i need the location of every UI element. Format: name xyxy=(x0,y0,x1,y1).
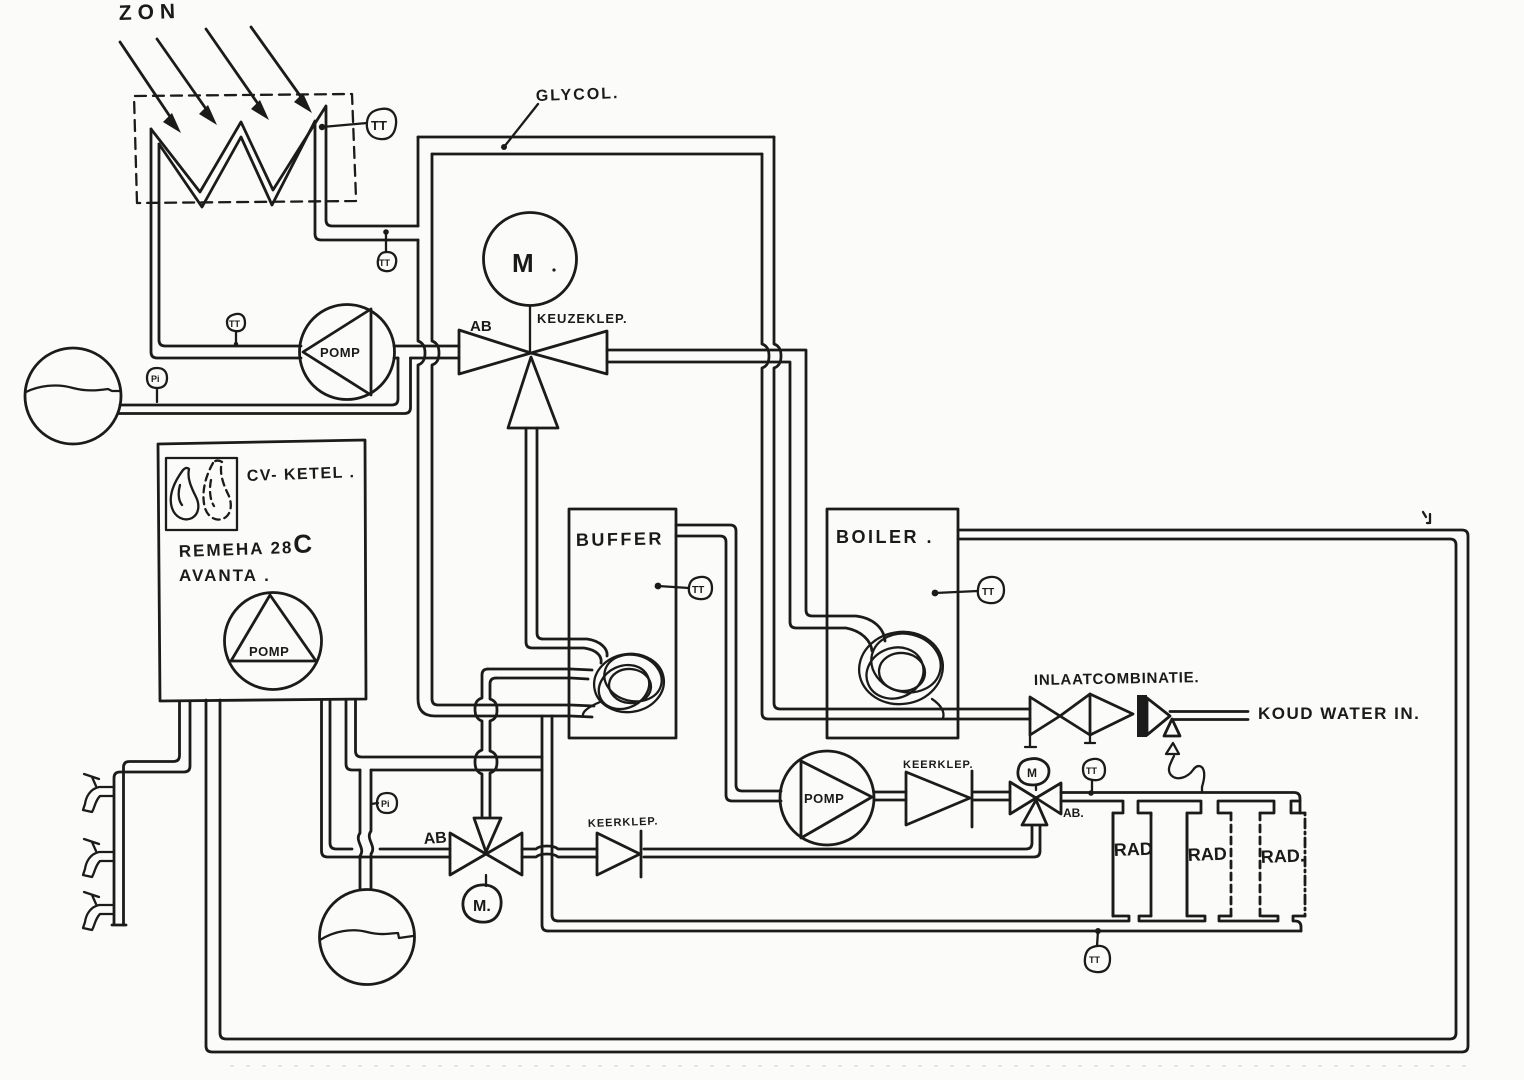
sun ray arrow 4 xyxy=(251,27,312,113)
sensor TT6 on boiler xyxy=(932,577,1004,603)
wire: cv pipe p3 down to mixing valve line xyxy=(322,701,451,857)
wire: supply right end xyxy=(1291,801,1305,813)
wire: mixing valve line to radiator valve bottom port xyxy=(522,827,1040,857)
label KEUZEKLEP xyxy=(537,311,628,326)
wire: pump 2 outlet xyxy=(874,792,906,800)
svg-text:M: M xyxy=(1027,766,1037,780)
stray mark top right xyxy=(1423,512,1430,523)
svg-text:KEUZEKLEP.: KEUZEKLEP. xyxy=(537,311,628,326)
heat exchanger coil in buffer xyxy=(583,649,668,717)
wire: return bridge 2 xyxy=(1219,916,1278,921)
svg-text:TT: TT xyxy=(1086,766,1097,776)
pump POMP2 (heating) xyxy=(780,751,874,845)
gauge Pi1 xyxy=(147,368,167,402)
svg-text:RAD.: RAD. xyxy=(1260,845,1305,867)
pump POMP1 (solar) xyxy=(300,305,395,400)
svg-text:TT: TT xyxy=(229,319,240,329)
svg-text:POMP: POMP xyxy=(804,791,844,806)
svg-text:BOILER .: BOILER . xyxy=(836,527,934,547)
wire: glycol loop right side down to boiler coil return xyxy=(762,137,1030,719)
label KOUD WATER IN xyxy=(1258,704,1420,723)
wire: vessel 1 up to solar pump outlet xyxy=(118,358,411,414)
heat exchanger coil in boiler xyxy=(854,626,947,718)
label INLAATCOMBINATIE xyxy=(1034,669,1200,689)
motor M2 of mixing valve xyxy=(463,875,501,922)
sensor TT3 on pump suction pipe xyxy=(227,314,245,346)
pump POMP3 (cv-ketel) xyxy=(225,593,322,690)
inlet combination relief valve and drain xyxy=(1164,719,1204,792)
solar collector dashed enclosure xyxy=(134,94,356,203)
svg-text:TT: TT xyxy=(379,258,390,268)
svg-text:AB: AB xyxy=(470,318,492,335)
inlet combination check valve xyxy=(1085,694,1133,743)
svg-text:RAD: RAD xyxy=(1113,839,1153,860)
wire: cv pipe p1 down to taps xyxy=(112,701,190,925)
wire: collector left pipe down to solar pump xyxy=(151,129,301,358)
wire: check valve to radiator valve xyxy=(974,792,1010,800)
expansion vessel 2 xyxy=(320,890,415,985)
svg-text:ZON: ZON xyxy=(118,0,181,25)
svg-text:KOUD WATER IN.: KOUD WATER IN. xyxy=(1258,704,1420,723)
sensor TT5 on buffer xyxy=(655,577,712,599)
inlet combination stop valve xyxy=(1025,694,1090,747)
radiator 2 xyxy=(1187,813,1231,916)
svg-text:AVANTA .: AVANTA . xyxy=(179,566,271,585)
wire: supply bridge 1 xyxy=(1138,801,1201,916)
label GLYCOL with leader xyxy=(501,85,620,150)
wire: cv pipe p4 to return tee xyxy=(346,701,542,770)
sensor TT7 on return xyxy=(1085,928,1110,972)
wire: boiler top to hot water loop xyxy=(206,530,1468,1052)
sensor TT1 on collector xyxy=(319,109,396,139)
svg-text:M.: M. xyxy=(473,898,491,915)
radiator 1 xyxy=(1113,813,1153,916)
radiator 3 xyxy=(1260,813,1305,916)
wire: selector valve right branch to boiler coil xyxy=(607,350,885,651)
faint page edge artifact xyxy=(230,1065,1472,1067)
wire: supply bridge 2 xyxy=(1218,801,1274,813)
vessel BOILER xyxy=(827,509,958,738)
wire: buffer side port down to mixing valve AB xyxy=(475,669,592,816)
wire: radiator return manifold xyxy=(548,916,1301,931)
svg-text:TT: TT xyxy=(1089,955,1100,965)
svg-text:POMP: POMP xyxy=(249,644,289,659)
svg-text:KEERKLEP.: KEERKLEP. xyxy=(903,759,974,771)
wire: glycol loop top xyxy=(418,137,774,154)
wire: selector valve bottom branch down to buffer coil xyxy=(526,428,607,663)
wire: return right end xyxy=(1293,916,1305,931)
wire: radiator supply manifold xyxy=(1061,793,1300,917)
svg-text:POMP: POMP xyxy=(320,345,360,360)
svg-text:AB: AB xyxy=(423,829,447,848)
wire: pump 1 to selector valve xyxy=(394,346,459,358)
radiator valve (3-way with motor above) xyxy=(1010,782,1061,825)
tap 3 xyxy=(83,892,114,930)
svg-text:TT: TT xyxy=(692,585,704,596)
svg-text:INLAATCOMBINATIE.: INLAATCOMBINATIE. xyxy=(1034,669,1200,689)
wire: buffer bottom return riser xyxy=(542,716,558,931)
svg-text:KEERKLEP.: KEERKLEP. xyxy=(588,816,659,830)
label ZON xyxy=(118,0,181,25)
motor M3 of radiator valve xyxy=(1018,759,1049,790)
svg-text:M: M xyxy=(512,248,534,278)
label AB of radiator valve xyxy=(1063,806,1084,820)
vessel BUFFER xyxy=(569,509,676,738)
svg-text:TT: TT xyxy=(982,587,994,598)
check valve KEERKLEP3 xyxy=(903,759,974,827)
svg-text:RAD: RAD xyxy=(1187,844,1227,865)
flame icon box xyxy=(166,458,237,530)
svg-text:AB.: AB. xyxy=(1063,806,1084,820)
wire: cold water inlet pipe xyxy=(1170,712,1248,720)
label REMEHA 28C xyxy=(178,528,314,563)
sensor TT8 on radiator supply xyxy=(1083,759,1105,796)
label AB of selector valve xyxy=(470,318,492,335)
inlet combination pressure element xyxy=(1137,695,1170,737)
label AB of mixing valve xyxy=(423,829,447,848)
svg-text:TT: TT xyxy=(371,118,387,133)
wire: buffer top to heating pump xyxy=(676,525,781,801)
mixing valve AB (3-way with motor below) xyxy=(450,818,522,875)
boiler CV-KETEL cabinet xyxy=(158,440,366,701)
tap 1 xyxy=(83,774,114,812)
sensor TT2 on collector return pipe xyxy=(378,229,396,271)
wire: glycol loop left side down to buffer xyxy=(418,137,594,717)
svg-text:Pi: Pi xyxy=(381,799,390,809)
solar collector absorber zigzag xyxy=(151,106,418,240)
expansion vessel 1 xyxy=(25,348,121,444)
svg-text:Pi: Pi xyxy=(151,374,160,384)
wire: return bridge 1 xyxy=(1139,916,1205,921)
selector valve KEUZEKLEP (3-way) xyxy=(459,330,607,428)
check valve KEERKLEP2 xyxy=(588,816,659,877)
motor M1 of selector valve xyxy=(484,213,577,352)
tap 2 xyxy=(83,839,114,877)
wire: expansion vessel 2 stem with flex xyxy=(358,770,372,889)
label CV-KETEL xyxy=(247,464,356,485)
label AVANTA xyxy=(179,566,271,585)
sun ray arrow 1 xyxy=(120,42,181,133)
gauge Pi2 xyxy=(371,793,397,813)
sun ray arrow 3 xyxy=(206,29,269,120)
svg-text:BUFFER: BUFFER xyxy=(576,528,664,550)
sun ray arrow 2 xyxy=(157,39,217,125)
svg-text:GLYCOL.: GLYCOL. xyxy=(536,85,620,105)
